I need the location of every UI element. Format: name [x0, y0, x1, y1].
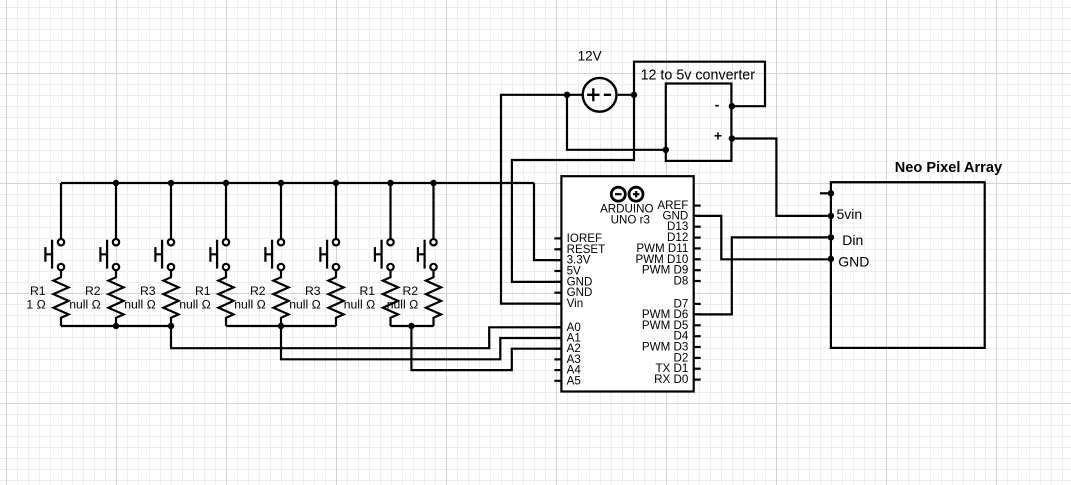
wire: 12V right down to Arduino GND [512, 95, 634, 282]
svg-text:D8: D8 [673, 275, 688, 288]
svg-text:1 Ω: 1 Ω [26, 297, 45, 311]
voltage source 12V [583, 78, 617, 112]
pin IOREF (left) [554, 232, 602, 245]
pin 3.3V (left) [554, 254, 590, 267]
wire: group2 to Arduino A1 [281, 326, 561, 359]
pin GND (left) [554, 286, 592, 299]
svg-text:R1: R1 [195, 284, 211, 298]
wire: 12V left terminal to Arduino Vin [501, 95, 583, 304]
junction: converter plus pin [729, 135, 735, 141]
pushbutton SW8 [418, 239, 437, 270]
svg-text:R2: R2 [85, 284, 101, 298]
pin GND (left) [554, 275, 592, 288]
svg-text:12V: 12V [578, 49, 602, 64]
svg-text:+: + [714, 128, 722, 144]
svg-text:R1: R1 [30, 284, 46, 298]
pin PWM D9 (right) [642, 264, 701, 277]
pin Din [828, 232, 864, 248]
resistor R1 (unit 1) [53, 270, 68, 326]
wire: bottom bus group 1 (SW1-SW3) [61, 325, 171, 327]
wire: bus drop to SW7 [389, 183, 391, 239]
converter module U2 (12 to 5v converter) [666, 84, 732, 161]
junction: converter minus pin [729, 103, 735, 109]
pushbutton SW4 [210, 239, 229, 270]
pin 5V (left) [554, 265, 581, 278]
wire: group3 to Arduino A2 [411, 326, 561, 370]
svg-text:R2: R2 [250, 284, 266, 298]
junction: converter input node [663, 147, 669, 153]
pin D13 (right) [667, 220, 701, 233]
pin A2 (left) [554, 342, 580, 355]
pushbutton SW7 [375, 239, 394, 270]
svg-text:null Ω: null Ω [387, 297, 418, 311]
svg-text:null Ω: null Ω [344, 297, 375, 311]
resistor R1 (unit 7) [383, 270, 398, 326]
svg-text:null Ω: null Ω [69, 297, 100, 311]
svg-text:null Ω: null Ω [179, 297, 210, 311]
junction: bus / SW2 [113, 180, 119, 186]
wire: bus drop to SW3 [170, 183, 172, 239]
module U3 Neo Pixel Array [831, 182, 985, 348]
resistor R3 (unit 3) [163, 270, 178, 326]
svg-text:Din: Din [842, 232, 863, 248]
pin 5vin [828, 206, 862, 222]
pushbutton SW3 [155, 239, 174, 270]
svg-text:GND: GND [838, 254, 869, 270]
junction: node at 12V left [564, 92, 570, 98]
svg-text:UNO r3: UNO r3 [611, 213, 650, 226]
wire: 12V left branch to converter input [567, 95, 666, 150]
pushbutton SW5 [265, 239, 284, 270]
pin PWM D10 (right) [635, 253, 700, 266]
resistor R1 (unit 4) [218, 270, 233, 326]
junction: group1 / R3 [168, 323, 174, 329]
pin PWM D6 (right) [642, 308, 701, 321]
wire: bus drop to SW1 [60, 183, 62, 239]
wire: Arduino GND to NeoPixel GND [694, 216, 831, 259]
svg-text:12 to 5v converter: 12 to 5v converter [641, 67, 756, 83]
svg-text:R3: R3 [140, 284, 156, 298]
pin D8 (right) [673, 275, 700, 288]
pin GND (right) [663, 209, 701, 222]
wire: Arduino D6 to NeoPixel Din [694, 237, 831, 314]
wire: bus drop to SW4 [225, 183, 227, 239]
wire: bottom bus group 2 (SW4-SW6) [226, 325, 336, 327]
pin D12 (right) [667, 231, 701, 244]
pin GND [828, 254, 870, 270]
wire: bottom bus group 3 (SW7-SW8) [391, 325, 434, 327]
junction: group2 / R2 [278, 323, 284, 329]
svg-text:Neo Pixel Array: Neo Pixel Array [895, 160, 1003, 176]
svg-text:Vin: Vin [567, 297, 584, 310]
resistor R2 (unit 2) [108, 270, 123, 326]
junction: bus / SW5 [278, 180, 284, 186]
wire: top bus [61, 182, 534, 184]
junction: bus / SW3 [168, 180, 174, 186]
wire: bus drop to SW6 [335, 183, 337, 239]
resistor R3 (unit 6) [328, 270, 343, 326]
svg-text:R1: R1 [360, 284, 376, 298]
junction: bus / SW6 [333, 180, 339, 186]
wire: group1 to Arduino A0 [171, 326, 561, 348]
pin RX D0 (right) [654, 373, 701, 386]
svg-text:R2: R2 [403, 284, 419, 298]
wire: bus to Arduino 3.3V [534, 183, 561, 260]
junction: bus / SW7 [387, 180, 393, 186]
pushbutton SW2 [100, 239, 119, 270]
pin A5 (left) [554, 374, 580, 387]
wire: bus drop to SW8 [432, 183, 434, 239]
pin TX D1 (right) [655, 362, 700, 375]
pin RESET (left) [554, 243, 605, 256]
pin stub (unlabeled) NeoPixel [820, 192, 831, 194]
pin D2 (right) [673, 351, 700, 364]
pin A4 (left) [554, 364, 581, 377]
svg-text:null Ω: null Ω [124, 297, 155, 311]
junction: bus / SW8 [430, 180, 436, 186]
wire: bus drop to SW5 [280, 183, 282, 239]
pin PWM D5 (right) [642, 319, 701, 332]
svg-text:5vin: 5vin [837, 206, 863, 222]
junction: group1 / R2 [113, 323, 119, 329]
pin AREF (right) [657, 199, 700, 212]
svg-text:R3: R3 [305, 284, 321, 298]
arduino logo [611, 187, 643, 201]
resistor R2 (unit 5) [273, 270, 288, 326]
pin PWM D11 (right) [636, 242, 700, 255]
svg-text:null Ω: null Ω [234, 297, 265, 311]
pushbutton SW1 [45, 239, 64, 270]
wire: converter plus to NeoPixel 5vin [732, 139, 831, 216]
pin A0 (left) [554, 321, 580, 334]
pin A1 (left) [554, 332, 580, 345]
pin Vin (left) [554, 297, 583, 310]
pin PWM D3 (right) [642, 341, 701, 354]
svg-text:A5: A5 [567, 374, 581, 387]
pushbutton SW6 [320, 239, 339, 270]
microcontroller U1 Arduino UNO r3 [561, 176, 693, 391]
junction: node at 12V right [631, 92, 637, 98]
pin A3 (left) [554, 353, 580, 366]
pin D7 (right) [673, 297, 700, 310]
junction: NeoPixel top pin [828, 190, 834, 196]
svg-text:RX D0: RX D0 [654, 373, 688, 386]
wire: 12V right over-the-top to converter minus [634, 62, 765, 106]
pin D4 (right) [673, 330, 700, 343]
svg-text:-: - [715, 96, 720, 112]
wire: 12V right terminal stub [618, 94, 634, 96]
junction: bus / SW4 [223, 180, 229, 186]
resistor R2 (unit 8) [426, 270, 441, 326]
junction: group3 tap [408, 323, 414, 329]
svg-text:null Ω: null Ω [289, 297, 320, 311]
wire: bus drop to SW2 [115, 183, 117, 239]
